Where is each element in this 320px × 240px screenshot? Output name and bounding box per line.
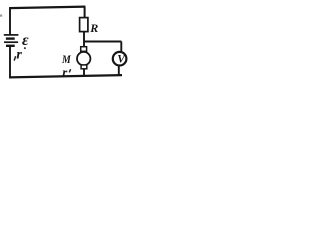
svg-text:ε: ε [22,32,29,49]
wire branch horizontal to voltmeter [83,40,121,42]
wire voltmeter bottom vertical [118,65,120,76]
wire right upper vertical (to resistor) [84,7,86,18]
wire voltmeter top vertical [120,42,122,53]
battery E long plate 2 [4,41,18,43]
battery E short plate 2 [6,45,15,47]
wire left upper vertical [9,7,11,35]
voltmeter V circle [113,52,127,66]
prime mark of r' [69,69,70,72]
speckle left edge [0,15,2,17]
stray tick mark near battery r label [14,56,15,60]
motor top brush terminal [81,47,87,52]
wire bottom horizontal [9,75,122,77]
motor bottom brush terminal [81,65,87,69]
wire left lower vertical [9,47,11,79]
battery E long plate 1 [4,34,19,36]
motor M circle [77,52,90,65]
battery E short plate 1 [6,37,15,39]
resistor R box [80,18,88,32]
svg-text:R: R [89,21,98,35]
svg-text:r: r [16,47,22,62]
wire below resistor to motor [83,32,85,47]
svg-text:V: V [117,54,126,66]
stray dot below epsilon [24,47,26,49]
wire below motor [83,69,85,77]
wire top horizontal [9,7,85,9]
